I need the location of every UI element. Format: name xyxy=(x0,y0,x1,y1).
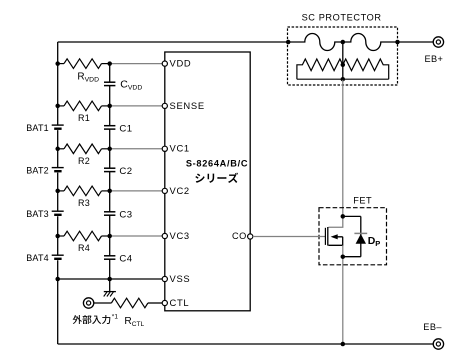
svg-text:SC PROTECTOR: SC PROTECTOR xyxy=(302,13,382,23)
wire FET source to bottom rail xyxy=(342,257,344,344)
svg-text:DP: DP xyxy=(368,235,381,248)
resistor R1 xyxy=(64,101,102,111)
svg-text:RCTL: RCTL xyxy=(124,316,144,328)
resistor heater right xyxy=(343,59,389,79)
resistor RVDD xyxy=(64,59,102,69)
FET dashed box xyxy=(319,208,387,265)
svg-text:C3: C3 xyxy=(119,210,132,221)
capacitor CVDD xyxy=(104,81,115,83)
wire SENSE row to pin xyxy=(110,105,163,107)
svg-text:BAT4: BAT4 xyxy=(26,253,49,263)
terminal EB- xyxy=(433,339,443,349)
svg-text:*1: *1 xyxy=(112,313,119,320)
wire VC2 row to pin xyxy=(110,190,163,192)
resistor R3 xyxy=(64,186,102,196)
svg-text:C1: C1 xyxy=(119,123,132,134)
wire drain tap xyxy=(329,216,343,227)
wire source to source dot xyxy=(342,245,344,256)
svg-text:BAT1: BAT1 xyxy=(26,123,49,133)
wire VC1 row to pin xyxy=(110,148,163,150)
wire VSS row xyxy=(58,278,163,280)
battery BAT4 xyxy=(52,254,64,256)
wire source to diode xyxy=(343,256,361,258)
wire CO to gate xyxy=(253,236,325,238)
wire top rail (BAT+ to SC protector) xyxy=(58,41,289,43)
wire bottom rail (BAT- to EB-) xyxy=(58,343,434,345)
resistor heater left xyxy=(297,59,343,79)
svg-text:CVDD: CVDD xyxy=(120,79,142,92)
capacitor C4 xyxy=(104,255,115,257)
svg-text:SENSE: SENSE xyxy=(170,100,205,111)
node bottom rail junction xyxy=(341,342,346,347)
svg-text:FET: FET xyxy=(353,195,372,205)
wire heater outer U xyxy=(297,78,389,80)
transistor Q1 channel bar xyxy=(327,227,329,246)
label external input (kanji) xyxy=(73,313,119,324)
battery BAT3 xyxy=(52,210,64,212)
wire SCP heater to FET drain xyxy=(342,80,344,217)
wire fuse midpoint to heater xyxy=(342,42,344,79)
svg-text:R1: R1 xyxy=(78,113,90,123)
svg-text:CTL: CTL xyxy=(170,297,190,308)
capacitor C2 xyxy=(104,167,115,169)
resistor RCTL xyxy=(111,298,147,308)
svg-text:S-8264A/B/C: S-8264A/B/C xyxy=(186,159,248,169)
node junction dots left rails xyxy=(55,61,60,66)
svg-text:CO: CO xyxy=(232,231,247,241)
battery BAT2 xyxy=(52,167,64,169)
transistor Q1 source/body path xyxy=(329,237,343,246)
resistor R4 xyxy=(64,231,102,241)
battery BAT1 xyxy=(52,124,64,126)
wire CTL terminal to RCTL xyxy=(94,302,112,304)
wire SCP to EB+ xyxy=(398,41,434,43)
svg-text:VSS: VSS xyxy=(170,273,191,284)
wire drain to diode xyxy=(343,215,361,217)
fuse F1 xyxy=(288,34,343,51)
fuse F2 xyxy=(343,34,398,51)
svg-text:R4: R4 xyxy=(78,243,90,253)
wire VC3 row to pin xyxy=(110,235,163,237)
resistor R2 xyxy=(64,144,102,154)
node FET drain dot xyxy=(341,214,346,219)
wire VDD row to pin xyxy=(110,63,163,65)
svg-text:C2: C2 xyxy=(119,166,132,177)
terminal EB+ xyxy=(433,37,443,47)
transistor Q1 gate bar xyxy=(324,228,326,245)
terminal external input xyxy=(83,298,93,308)
capacitor C3 xyxy=(104,211,115,213)
svg-text:R2: R2 xyxy=(78,156,90,166)
capacitor C1 xyxy=(104,125,115,127)
node FET source dot xyxy=(341,254,346,259)
label series (katakana) xyxy=(195,173,238,183)
svg-text:EB–: EB– xyxy=(423,322,442,332)
SC protector dashed box xyxy=(288,27,398,85)
svg-text:BAT3: BAT3 xyxy=(26,209,49,219)
wire RCTL to CTL pin xyxy=(148,302,162,304)
wire capacitor column xyxy=(109,64,111,292)
svg-text:VC2: VC2 xyxy=(170,185,190,196)
op-amp U1 S-8264 IC box xyxy=(165,52,250,311)
svg-text:VC3: VC3 xyxy=(170,230,190,241)
svg-text:EB+: EB+ xyxy=(424,54,443,64)
ground symbol xyxy=(104,291,116,293)
svg-text:R3: R3 xyxy=(78,198,90,208)
wire left battery rail xyxy=(57,42,59,344)
svg-text:VDD: VDD xyxy=(170,58,192,69)
diode DP xyxy=(360,216,362,256)
svg-text:VC1: VC1 xyxy=(170,143,190,154)
svg-text:C4: C4 xyxy=(119,254,132,265)
node SCP dots xyxy=(286,40,291,45)
pin CO circle xyxy=(248,234,253,239)
svg-text:RVDD: RVDD xyxy=(77,72,99,84)
pin circles IC left side xyxy=(162,61,167,66)
svg-text:BAT2: BAT2 xyxy=(26,166,49,176)
